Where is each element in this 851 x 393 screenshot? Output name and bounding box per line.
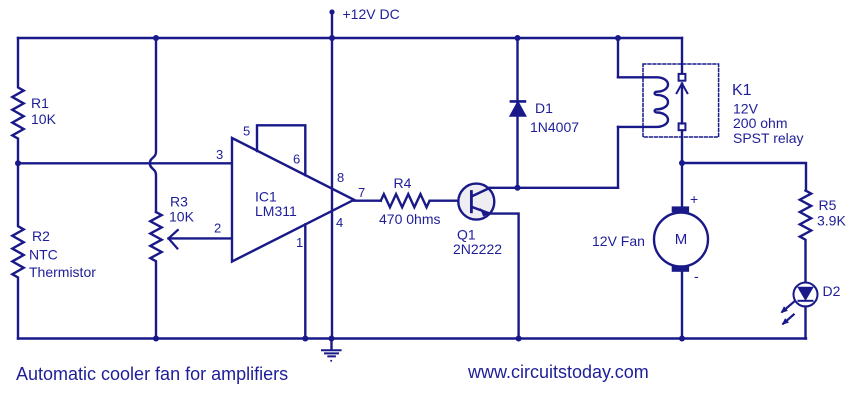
node relay coil top junction	[615, 35, 621, 41]
svg-text:8: 8	[337, 170, 344, 185]
node R3 top junction	[153, 35, 159, 41]
transistor Q1 emitter arrowhead	[480, 208, 490, 216]
diode D1	[511, 38, 525, 188]
svg-text:www.circuitstoday.com: www.circuitstoday.com	[467, 362, 649, 382]
svg-text:R3: R3	[170, 194, 188, 210]
resistor R5	[800, 191, 811, 283]
relay K1 contact	[677, 38, 688, 163]
relay K1 dashed outline box	[643, 64, 719, 137]
svg-text:470 0hms: 470 0hms	[379, 211, 440, 227]
wire pin 3 input	[18, 162, 232, 164]
node fan/R5 branch junction	[679, 160, 685, 166]
svg-text:R4: R4	[394, 175, 412, 191]
ground tip dot	[330, 360, 332, 362]
node R3 bottom junction	[153, 336, 159, 342]
svg-text:12V: 12V	[733, 101, 759, 117]
LED D2 light arrowheads	[781, 306, 789, 325]
svg-text:+: +	[690, 191, 698, 207]
node Q1 emitter ground junction	[516, 336, 522, 342]
node fan ground junction	[679, 336, 685, 342]
node A (R1/R2 divider, pin 3)	[15, 160, 21, 166]
svg-text:1N4007: 1N4007	[530, 119, 579, 135]
resistor R2 (NTC thermistor)	[12, 163, 23, 338]
wire pin 2 to R3 wiper	[169, 237, 232, 239]
svg-text:2: 2	[214, 220, 221, 235]
svg-text:NTC: NTC	[29, 247, 58, 263]
node D1 top junction	[515, 35, 521, 41]
wire D2 to ground rail	[804, 307, 806, 339]
resistor R4	[381, 194, 459, 207]
relay K1 coil	[618, 77, 668, 127]
svg-text:3.9K: 3.9K	[817, 212, 846, 228]
wire R3 branch with crossover hop	[150, 38, 156, 212]
wire bottom ground rail	[18, 337, 806, 339]
svg-text:R5: R5	[819, 197, 837, 213]
svg-text:K1: K1	[732, 82, 752, 99]
transistor Q1	[458, 184, 518, 339]
resistor R1	[12, 38, 23, 163]
LED D2	[783, 283, 818, 324]
wire fan branch	[681, 163, 683, 207]
wire Q1 collector	[488, 187, 518, 189]
R3 wiper arrow	[169, 230, 178, 248]
op-amp U1 (IC1 LM311 triangle)	[232, 138, 354, 262]
svg-text:R1: R1	[31, 95, 49, 111]
wire fan to ground rail	[681, 273, 683, 339]
wire +12V terminal stub	[331, 12, 333, 38]
wire R5 branch top	[682, 163, 806, 191]
svg-text:+12V DC: +12V DC	[343, 6, 400, 22]
svg-text:4: 4	[336, 215, 343, 230]
node Q1 collector junction	[515, 185, 521, 191]
svg-text:6: 6	[293, 152, 300, 167]
node pin1 ground junction	[302, 336, 308, 342]
motor M1 (12V fan)	[654, 206, 708, 271]
svg-text:2N2222: 2N2222	[453, 241, 502, 257]
wire top +12V rail	[18, 37, 682, 39]
svg-text:-: -	[694, 268, 699, 284]
potentiometer R3	[150, 212, 161, 339]
svg-text:10K: 10K	[31, 111, 57, 127]
svg-text:Thermistor: Thermistor	[29, 264, 96, 280]
svg-text:10K: 10K	[169, 209, 195, 225]
node +12V rail / supply column junction	[329, 35, 335, 41]
node +12V terminal	[329, 9, 334, 14]
svg-text:SPST relay: SPST relay	[733, 130, 804, 146]
svg-text:3: 3	[216, 147, 223, 162]
wire coil return to collector node	[617, 127, 619, 188]
svg-text:7: 7	[358, 185, 365, 200]
ground	[322, 339, 341, 357]
wire pin8/pin4 supply vertical	[331, 38, 333, 339]
wire collector node to relay	[518, 187, 619, 189]
wire pin 1 to ground rail	[304, 224, 306, 338]
svg-text:5: 5	[243, 124, 250, 139]
svg-text:Automatic cooler fan for ampli: Automatic cooler fan for amplifiers	[16, 364, 288, 384]
svg-text:D2: D2	[823, 283, 841, 299]
node ground symbol junction	[329, 336, 335, 342]
wire relay coil feed	[617, 38, 619, 77]
svg-text:D1: D1	[535, 100, 553, 116]
svg-text:12V Fan: 12V Fan	[592, 233, 645, 249]
svg-text:M: M	[675, 231, 688, 248]
svg-text:1: 1	[296, 235, 303, 250]
svg-text:200 ohm: 200 ohm	[733, 115, 787, 131]
wire pin5-pin6 balance loop	[257, 125, 305, 175]
svg-text:R2: R2	[32, 228, 50, 244]
wire pin 7 output	[354, 199, 381, 201]
svg-text:LM311: LM311	[255, 203, 297, 219]
